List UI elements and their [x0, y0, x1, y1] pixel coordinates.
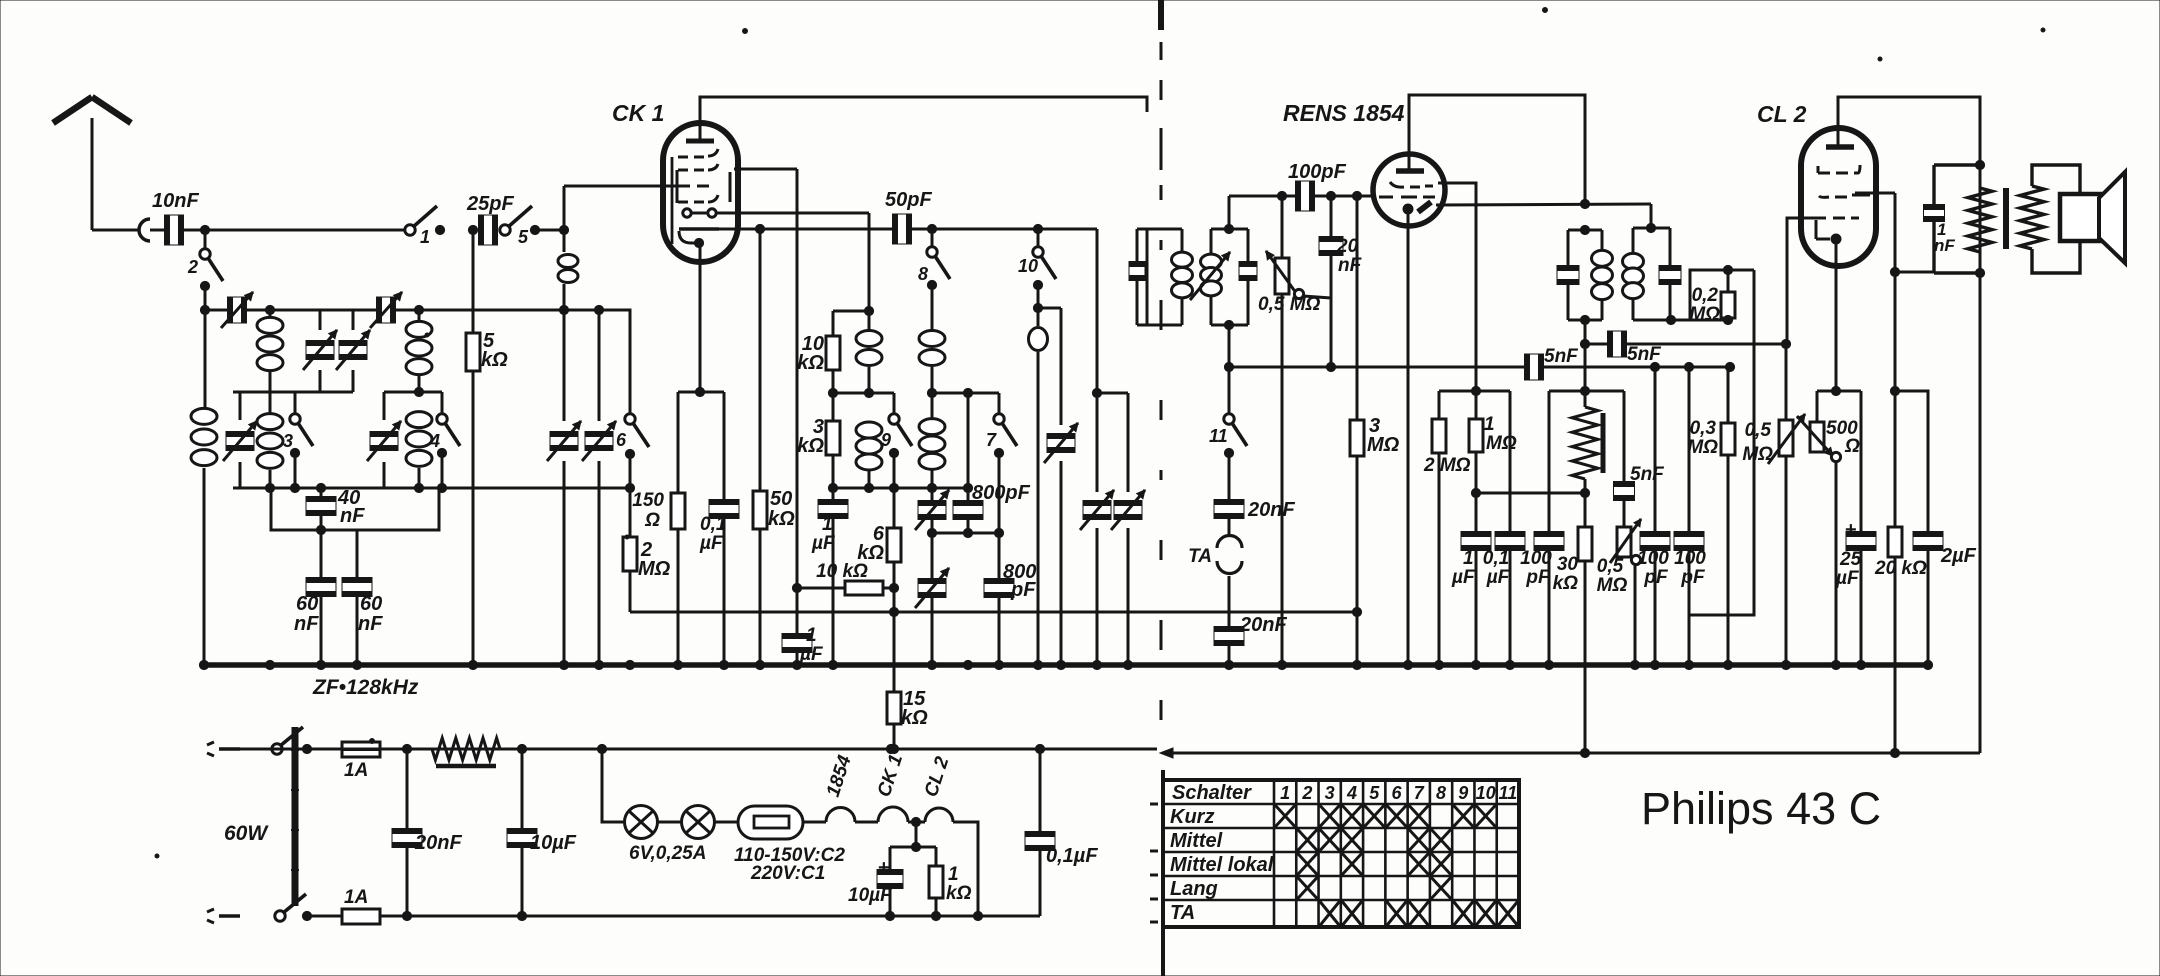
coil osc d: [919, 393, 945, 488]
capacitor 10uF mains: [507, 749, 537, 921]
label 5k: [481, 330, 508, 371]
node AVC c: [1725, 362, 1734, 371]
IF1 shield bracket: [1147, 229, 1158, 325]
wire CL2 anode top: [1838, 97, 1980, 753]
svg-text:Mittel lokal: Mittel lokal: [1170, 854, 1274, 876]
wire CL2 grid: [1787, 218, 1814, 344]
wire osc grid down x869: [864, 213, 873, 316]
svg-text:11: 11: [1499, 783, 1518, 803]
svg-text:0,3: 0,3: [1690, 418, 1717, 439]
label 10nF: [152, 190, 199, 212]
svg-text:25: 25: [1839, 549, 1862, 570]
svg-text:MΩ: MΩ: [1367, 434, 1400, 456]
label 1nF: [1934, 220, 1955, 255]
switch 7: [994, 393, 1017, 533]
switch mains bottom: [275, 894, 312, 921]
trimmer capacitor gang e: [1111, 393, 1145, 665]
label 1A bottom: [344, 887, 368, 908]
label 10k osc: [797, 333, 824, 374]
node y310 d: [594, 305, 603, 314]
node y310 c: [559, 305, 568, 314]
svg-text:nF: nF: [340, 505, 365, 527]
trimmer capacitor series B: [370, 292, 402, 328]
svg-text:Philips 43 C: Philips 43 C: [1641, 783, 1881, 834]
svg-text:6: 6: [1391, 783, 1402, 803]
svg-text:6V,0,25A: 6V,0,25A: [629, 843, 706, 864]
IF1 capacitor primary: [1129, 229, 1147, 325]
switch 4: [437, 392, 460, 488]
wire switch5 to node: [535, 225, 569, 234]
svg-text:0,5: 0,5: [1745, 420, 1772, 441]
svg-text:kΩ: kΩ: [901, 707, 928, 729]
potentiometer 0.5M output: [1768, 344, 1805, 665]
capacitor 0.1uF cathode: [709, 392, 739, 665]
capacitor 20nF TA b: [1214, 576, 1244, 665]
resistor 30k: [1578, 493, 1592, 753]
coil tank2: [406, 412, 432, 488]
tank1 top wire: [233, 391, 353, 394]
svg-text:µF: µF: [799, 644, 824, 665]
wire RENS plate y204: [1436, 199, 1651, 208]
svg-text:pF: pF: [1010, 579, 1036, 601]
label 5nF coupling: [1627, 344, 1662, 365]
capacitor 60nF a: [306, 525, 336, 665]
label 4: [429, 431, 440, 451]
label CL2: [1757, 101, 1807, 127]
svg-text:ZF•128kHz: ZF•128kHz: [312, 676, 419, 699]
cathode box CK1: [678, 387, 724, 396]
wire heater feed: [602, 749, 624, 822]
label 0.1uF: [699, 514, 726, 554]
node AVC a: [1650, 362, 1659, 371]
svg-text:MΩ: MΩ: [1597, 575, 1628, 596]
TA pickup symbol: [1217, 533, 1242, 573]
IF1 capacitor secondary: [1239, 229, 1257, 325]
svg-text:Mittel: Mittel: [1170, 830, 1223, 852]
capacitor 50pF: [893, 214, 1098, 244]
wire 0.2M chain: [1690, 270, 1754, 615]
svg-text:4: 4: [1346, 783, 1357, 803]
capacitor 2uF: [1913, 532, 1943, 666]
svg-text:30: 30: [1557, 554, 1579, 575]
node B+ volume: [1580, 748, 1589, 757]
svg-text:2 MΩ: 2 MΩ: [1423, 455, 1471, 476]
label 1M screen: [1484, 414, 1517, 454]
wire node line y530: [271, 488, 439, 530]
IF1 tuning arrow: [1190, 252, 1230, 300]
svg-text:20 kΩ: 20 kΩ: [1874, 558, 1927, 579]
tube RENS1854 envelope: [1373, 154, 1445, 226]
label 40nF: [337, 487, 365, 527]
svg-text:8: 8: [918, 264, 928, 284]
IF2 secondary bottom: [1633, 315, 1728, 324]
svg-text:CK 1: CK 1: [612, 100, 664, 126]
resistor 6k: [887, 488, 901, 593]
node grid a: [1277, 191, 1286, 200]
title Philips 43 C: [1641, 783, 1881, 834]
resistor 3k: [826, 393, 840, 488]
capacitor 0.1uF HT: [1025, 744, 1055, 916]
label TA: [1188, 546, 1212, 567]
label 15k: [901, 688, 928, 729]
capacitor 1nF tone: [1924, 160, 1985, 277]
svg-text:0,1: 0,1: [700, 514, 726, 535]
svg-text:2: 2: [187, 257, 198, 277]
resistor 1k heater: [929, 847, 943, 921]
capacitor 20nF TA a: [1214, 453, 1244, 533]
label 500R: [1826, 418, 1860, 457]
wire CK1 cathode: [699, 243, 702, 390]
svg-text:9: 9: [1458, 783, 1468, 803]
svg-text:MΩ: MΩ: [1486, 433, 1517, 454]
trimmer capacitor gang b: [582, 310, 616, 665]
svg-text:20: 20: [1336, 236, 1359, 257]
label 100pF AF: [1520, 548, 1552, 588]
svg-text:5nF: 5nF: [1627, 344, 1662, 365]
label 1: [420, 227, 430, 247]
node AVC b: [1684, 362, 1693, 371]
svg-text:0,2: 0,2: [1692, 285, 1719, 306]
coil tank1: [257, 392, 283, 488]
label 25pF: [466, 193, 514, 215]
svg-text:5: 5: [518, 227, 529, 247]
svg-text:4: 4: [429, 431, 440, 451]
potentiometer 500R: [1797, 391, 1841, 665]
antenna plug jack: [92, 219, 150, 241]
capacitor 5nF AVC: [1525, 354, 1731, 380]
volume box top: [1549, 386, 1624, 395]
svg-text:kΩ: kΩ: [481, 349, 508, 371]
tank2 top wire: [384, 391, 442, 394]
wire anode to IF2: [1650, 204, 1653, 228]
label 10uF mains: [530, 832, 577, 854]
wire osc branch y311: [833, 310, 869, 313]
label lamps: [629, 843, 706, 864]
resistor 0.2M: [1690, 265, 1754, 324]
node B+ osc: [886, 744, 895, 753]
wire volume x1585: [1580, 320, 1589, 391]
label 10: [1018, 256, 1038, 276]
svg-text:Ω: Ω: [1844, 436, 1860, 457]
heater winding CL2: [908, 808, 953, 827]
capacitor 1uF AF: [1461, 493, 1491, 665]
wire IF1 to sw11: [1224, 325, 1233, 414]
trimmer capacitor tank1: [223, 392, 257, 488]
wire RENS cathode: [1407, 209, 1410, 665]
lamp dial a: [625, 806, 658, 839]
resistor 10k osc: [826, 311, 840, 393]
wire RENS grid y196: [1229, 195, 1374, 198]
switch 10: [1033, 224, 1056, 289]
coil osc c: [919, 285, 945, 398]
svg-text:11: 11: [1209, 426, 1228, 446]
svg-text:2: 2: [1301, 783, 1312, 803]
svg-text:5nF: 5nF: [1544, 346, 1579, 367]
node y488 dots: [265, 483, 446, 492]
fuse 1A bottom: [307, 909, 1040, 924]
label 60W: [224, 822, 269, 845]
node grid b: [1326, 191, 1335, 200]
node y310 b: [414, 305, 423, 314]
svg-text:10µF: 10µF: [848, 885, 893, 906]
label 0.5M regen: [1597, 556, 1628, 596]
wire node line y488: [233, 487, 628, 490]
trimmer capacitor series A: [221, 292, 253, 328]
coil osc e: [1029, 285, 1048, 665]
svg-text:150: 150: [632, 490, 664, 511]
label 20nF mains: [414, 832, 462, 854]
svg-text:10 kΩ: 10 kΩ: [816, 561, 868, 582]
svg-text:kΩ: kΩ: [797, 352, 824, 374]
svg-text:100: 100: [1674, 548, 1706, 569]
ground bus junction dots: [199, 660, 1932, 669]
IF1 coil primary: [1158, 229, 1193, 325]
resistor 10k horizontal: [797, 581, 894, 595]
capacitor 5nF cathode: [1614, 391, 1635, 527]
resistor 2M screen: [1432, 391, 1446, 665]
resistor 1M screen: [1469, 391, 1483, 498]
IF2 capacitor primary: [1557, 230, 1579, 320]
svg-text:1: 1: [420, 227, 430, 247]
svg-text:pF: pF: [1643, 567, 1669, 588]
potentiometer 0.5M AVC: [1266, 196, 1304, 665]
svg-text:µF: µF: [1486, 567, 1511, 588]
label 9: [881, 430, 891, 450]
capacitor 100pF det b: [1674, 367, 1704, 665]
table header row: [1172, 782, 1517, 804]
svg-text:+: +: [878, 857, 890, 879]
label 60nF a: [294, 593, 319, 635]
label 5: [518, 227, 529, 247]
svg-text:0,1: 0,1: [1483, 548, 1509, 569]
IF2 primary top: [1568, 225, 1602, 234]
label 6: [616, 430, 627, 450]
svg-text:60: 60: [296, 593, 318, 615]
switch 6: [599, 310, 649, 493]
resistor mains dropper: [432, 738, 500, 766]
wire CK1 screen y169: [734, 168, 797, 171]
label 20nF grid: [1336, 236, 1363, 276]
svg-text:10: 10: [1018, 256, 1038, 276]
label 3M: [1367, 415, 1400, 456]
label voltage selector: [734, 845, 845, 884]
wire row y393 a: [828, 388, 894, 397]
label 1uF osc: [811, 514, 836, 554]
IF2 secondary top: [1633, 223, 1670, 232]
svg-text:TA: TA: [1170, 902, 1195, 924]
trimmer capacitor gang d: [1080, 393, 1114, 665]
resistor 15k: [887, 692, 901, 754]
label 0.5M AVC: [1258, 294, 1321, 315]
wire y186 grid line: [564, 186, 677, 230]
capacitor 20nF mains: [392, 749, 422, 921]
capacitor 10nF antenna coupling: [150, 215, 410, 245]
wire row3 y393: [932, 388, 999, 397]
wire y493: [1476, 488, 1590, 497]
scan speck a: [155, 8, 2045, 859]
svg-text:nF: nF: [1934, 236, 1955, 255]
svg-text:800pF: 800pF: [972, 482, 1031, 504]
wire IF1 to grid line: [1228, 196, 1231, 229]
svg-text:MΩ: MΩ: [1742, 444, 1773, 465]
label 3: [283, 431, 293, 451]
svg-text:6: 6: [616, 430, 627, 450]
label 10k h: [816, 561, 868, 582]
capacitor 1uF osc: [818, 488, 848, 665]
coil RF b: [406, 310, 432, 397]
coil antenna primary: [191, 408, 217, 465]
svg-text:MΩ: MΩ: [1687, 437, 1718, 458]
svg-text:pF: pF: [1525, 567, 1551, 588]
trimmer capacitor tank2: [367, 392, 401, 488]
mains terminal top: [207, 742, 240, 756]
svg-text:1: 1: [822, 514, 833, 535]
switch 1: [405, 206, 445, 235]
resistor 0.3M: [1721, 367, 1735, 665]
wire coil to bus: [203, 468, 206, 665]
switch 5: [500, 206, 540, 235]
wire antenna coil: [204, 286, 207, 408]
capacitor 5nF coupling: [1585, 331, 1791, 357]
svg-text:kΩ: kΩ: [797, 435, 824, 457]
svg-text:nF: nF: [294, 613, 319, 635]
svg-text:1A: 1A: [344, 887, 368, 908]
lamp dial b: [658, 806, 715, 839]
svg-text:µF: µF: [1451, 567, 1476, 588]
svg-text:nF: nF: [358, 613, 383, 635]
label 20k: [1874, 558, 1927, 579]
trimmer capacitor gang a: [547, 310, 581, 665]
label 11: [1209, 426, 1228, 446]
capacitor 1uF screen: [782, 588, 812, 665]
wire CL2 cathode: [1831, 239, 1840, 396]
node B+ output: [1890, 748, 1899, 757]
label 1k heater: [946, 864, 972, 904]
capacitor 10uF heater: [877, 822, 936, 921]
switch 11: [1224, 414, 1247, 458]
B+ rail: [240, 748, 1157, 751]
label 1uF screen: [799, 625, 824, 665]
capacitor 60nF b: [342, 530, 372, 665]
switch 9: [889, 393, 912, 488]
speaker: [2060, 172, 2125, 263]
heater winding 1854: [803, 808, 855, 823]
svg-text:5nF: 5nF: [1630, 464, 1665, 485]
label 8: [918, 264, 928, 284]
trimmer capacitor gang c: [1038, 308, 1078, 665]
label 5nF cathode: [1630, 464, 1665, 485]
page fold line: [1150, 0, 1163, 976]
trimmer capacitor shortwave a: [303, 310, 337, 392]
svg-text:10nF: 10nF: [152, 190, 199, 212]
switch mains top: [272, 727, 312, 754]
svg-text:µF: µF: [699, 533, 724, 554]
antenna: [53, 97, 131, 230]
wire RENS screen y182: [1438, 183, 1476, 391]
svg-text:8: 8: [1436, 783, 1446, 803]
resistor 20k: [1888, 193, 1934, 753]
capacitor 20nF grid: [1303, 196, 1343, 372]
resistor 5k: [466, 225, 480, 665]
svg-text:3: 3: [1325, 783, 1335, 803]
label 0.2M: [1689, 285, 1720, 325]
label 100pF det b: [1674, 548, 1706, 588]
transformer core: [2003, 188, 2009, 249]
svg-text:100: 100: [1520, 548, 1552, 569]
table row labels: [1170, 806, 1274, 924]
label 2uF: [1940, 545, 1977, 567]
wire RENS anode top: [1409, 95, 1585, 204]
svg-text:1: 1: [948, 864, 959, 885]
svg-text:3: 3: [283, 431, 293, 451]
IF1 secondary top wire: [1211, 224, 1248, 233]
switch gang link: [291, 727, 299, 906]
label 150R: [632, 490, 664, 531]
IF1 secondary bottom wire: [1211, 320, 1248, 329]
svg-text:20nF: 20nF: [1239, 614, 1287, 636]
voltage selector: [715, 806, 803, 839]
svg-text:7: 7: [986, 430, 997, 450]
svg-text:nF: nF: [1338, 255, 1363, 276]
svg-text:MΩ: MΩ: [638, 558, 671, 580]
svg-text:kΩ: kΩ: [946, 883, 972, 904]
svg-text:10µF: 10µF: [530, 832, 577, 854]
potentiometer 0.5M regen: [1610, 519, 1641, 665]
capacitor 25uF: [1845, 391, 1876, 665]
wire row5 y533: [927, 528, 1003, 537]
label 30k: [1553, 554, 1579, 594]
screen box top: [1439, 386, 1510, 395]
label 2M screen: [1423, 455, 1471, 476]
label 800pF b: [1003, 561, 1036, 601]
capacitor 800pF a: [953, 488, 983, 533]
capacitor 0.1uF AF: [1495, 391, 1525, 665]
svg-text:9: 9: [881, 430, 891, 450]
svg-text:0,5: 0,5: [1597, 556, 1624, 577]
svg-text:MΩ: MΩ: [1689, 304, 1720, 325]
node grid c: [1352, 191, 1361, 200]
wire screen chain x797: [792, 169, 801, 593]
label 20nF TA a: [1247, 499, 1295, 521]
label ZF 128kHz: [312, 676, 419, 699]
label 2M: [638, 539, 671, 580]
wire osc x894 to bus: [889, 588, 898, 692]
svg-text:1: 1: [1463, 548, 1474, 569]
svg-text:kΩ: kΩ: [857, 542, 884, 564]
resistor 2M grid leak: [623, 488, 637, 612]
label 800pF a: [972, 482, 1031, 504]
label heater CL2: [921, 754, 954, 800]
wire row y488 osc: [828, 483, 972, 492]
svg-text:0,1µF: 0,1µF: [1046, 845, 1098, 867]
tube CL2 internals: [1814, 128, 1870, 244]
svg-text:1: 1: [1280, 783, 1290, 803]
coil osc b: [856, 422, 882, 488]
resistor 50k: [753, 224, 767, 665]
wire x1097: [1092, 229, 1101, 398]
label 50pF: [885, 189, 932, 211]
svg-text:µF: µF: [811, 533, 836, 554]
svg-text:TA: TA: [1188, 546, 1212, 567]
label 100pF: [1288, 161, 1347, 183]
wire CK1 grid y213: [716, 212, 869, 215]
tube CK1 envelope: [663, 123, 738, 262]
svg-text:7: 7: [1414, 783, 1425, 803]
svg-text:100pF: 100pF: [1288, 161, 1347, 183]
svg-text:50: 50: [770, 488, 792, 510]
label 0.1uF AF: [1483, 548, 1511, 588]
label 10uF heater: [848, 885, 893, 906]
